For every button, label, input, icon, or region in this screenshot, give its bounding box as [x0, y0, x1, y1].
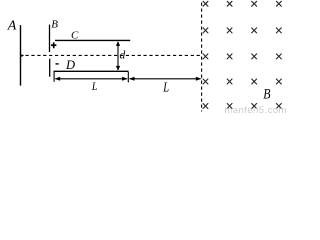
L1 dimension line — [55, 77, 128, 81]
beam axis dashed line — [26, 54, 202, 56]
minus sign on plate D — [56, 63, 59, 65]
L2 dimension line — [129, 77, 202, 81]
plate B lower segment — [49, 59, 51, 77]
svg-text:manfen5.com: manfen5.com — [224, 105, 287, 115]
plate D (bottom deflecting plate) — [54, 70, 129, 72]
svg-text:A: A — [7, 19, 17, 34]
plate C (top deflecting plate) — [55, 39, 130, 41]
field boundary dashed line — [201, 3, 203, 112]
svg-text:L: L — [162, 79, 169, 95]
svg-text:D: D — [65, 58, 75, 72]
plate B upper segment — [49, 25, 51, 52]
svg-text:C: C — [71, 29, 79, 41]
plus sign on plate C — [51, 42, 56, 48]
svg-text:d: d — [120, 49, 126, 61]
dimension tick left — [53, 72, 55, 82]
beam arrowhead — [21, 54, 24, 57]
magnetic field cross grid — [203, 1, 281, 108]
svg-text:L: L — [91, 80, 97, 93]
svg-text:B: B — [51, 19, 58, 31]
gap d dimension arrow — [116, 41, 120, 71]
plate A (accelerating electrode) — [20, 25, 22, 86]
dimension tick middle — [127, 72, 129, 83]
svg-text:B: B — [263, 85, 270, 101]
